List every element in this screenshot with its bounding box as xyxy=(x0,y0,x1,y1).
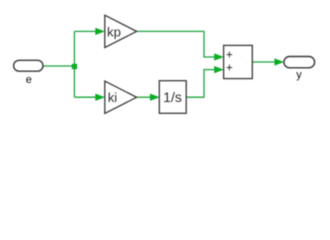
svg-text:+: + xyxy=(226,50,233,62)
arrowhead into integrator xyxy=(150,94,158,100)
wire kp to sum xyxy=(137,31,215,57)
sum block xyxy=(224,45,253,78)
wire integrator to sum xyxy=(186,70,215,98)
arrowhead into y xyxy=(275,59,283,65)
integrator block xyxy=(159,81,186,114)
wire sum to y xyxy=(252,61,275,63)
svg-text:1/s: 1/s xyxy=(163,89,182,105)
arrowhead into sum bottom xyxy=(215,66,223,72)
gain ki xyxy=(105,81,137,113)
junction node xyxy=(72,64,77,69)
input port e xyxy=(14,60,43,71)
wire ki to integrator xyxy=(137,96,151,98)
wire to kp xyxy=(74,30,96,32)
wire vertical trunk xyxy=(73,31,75,97)
svg-text:ki: ki xyxy=(108,90,118,105)
arrowhead into sum top xyxy=(215,54,223,60)
output port y xyxy=(284,57,315,68)
gain kp xyxy=(105,15,137,47)
svg-text:kp: kp xyxy=(107,24,121,39)
svg-text:e: e xyxy=(26,74,32,86)
arrowhead into kp xyxy=(96,28,104,34)
wire to ki xyxy=(74,96,96,98)
arrowhead into ki xyxy=(96,94,104,100)
svg-text:y: y xyxy=(296,69,302,81)
wire e to junction xyxy=(43,65,74,67)
svg-text:+: + xyxy=(226,62,233,74)
